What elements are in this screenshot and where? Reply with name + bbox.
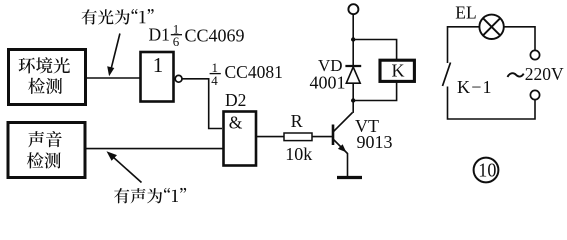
- svg-text:D1: D1: [149, 25, 170, 45]
- terminal: supply: [348, 4, 358, 14]
- svg-text:9013: 9013: [357, 132, 393, 152]
- diode VD (1N4001 flyback): [345, 40, 361, 101]
- svg-text:R: R: [291, 111, 303, 131]
- figure number 10: [474, 158, 499, 183]
- svg-text:10: 10: [478, 160, 496, 182]
- terminal: AC bottom: [530, 90, 539, 99]
- inverter D1: [141, 52, 183, 102]
- relay coil K: [380, 60, 414, 81]
- label: 1/4 CC4081: [210, 60, 283, 88]
- wire: resistor to base: [312, 136, 332, 138]
- label: K-1: [457, 77, 493, 97]
- svg-text:D2: D2: [225, 90, 246, 110]
- label: D1 1/6 CC4069: [149, 21, 245, 48]
- label: ~220V: [508, 64, 565, 84]
- wire: collector to bottom node: [352, 101, 354, 113]
- annotation arrow to sound wire: [107, 151, 142, 182]
- wire: lamp loop top: [448, 27, 480, 63]
- svg-text:220V: 220V: [525, 64, 564, 84]
- label: 10k: [285, 144, 312, 164]
- svg-text:CC4081: CC4081: [225, 62, 283, 82]
- svg-text:K: K: [392, 60, 405, 80]
- ground: [337, 176, 362, 179]
- label: D2: [225, 90, 246, 110]
- node: bottom junction: [351, 98, 355, 102]
- label: EL: [455, 3, 476, 23]
- wire: supply stem: [352, 14, 354, 39]
- transistor VT (NPN 9013): [333, 113, 353, 154]
- resistor R: [284, 133, 312, 141]
- svg-text:1: 1: [153, 53, 164, 77]
- svg-text:10k: 10k: [285, 144, 312, 164]
- svg-text:4001: 4001: [310, 72, 346, 92]
- annotation arrow to light wire: [107, 34, 120, 77]
- wire: D2 output to resistor: [256, 136, 284, 138]
- label: VD 4001: [310, 56, 346, 93]
- lamp EL: [479, 15, 503, 39]
- svg-text:4: 4: [211, 73, 218, 88]
- label: VT 9013: [355, 116, 393, 152]
- switch K-1: [443, 63, 451, 87]
- wire: light detector to D1: [86, 77, 140, 79]
- svg-text:EL: EL: [455, 3, 476, 23]
- node: top junction: [351, 37, 355, 41]
- label: R: [291, 111, 303, 131]
- wire: D1 output to D2 input 1: [182, 79, 222, 129]
- wire: lamp loop bottom: [448, 87, 536, 120]
- wire: bottom rail to relay: [353, 82, 396, 101]
- AND gate D2: [224, 112, 257, 166]
- svg-text:&: &: [229, 112, 243, 132]
- wire: emitter to ground: [347, 153, 349, 177]
- block: sound detector 声音检测: [8, 123, 85, 178]
- block: ambient light detector 环境光检测: [9, 50, 86, 105]
- terminal: AC top: [530, 50, 539, 59]
- svg-text:6: 6: [173, 34, 180, 49]
- svg-text:K−1: K−1: [457, 77, 493, 97]
- svg-text:CC4069: CC4069: [185, 25, 245, 45]
- wire: top rail to relay: [353, 40, 396, 61]
- label: 有光为"1": [82, 9, 154, 25]
- wire: sound detector to D2 input 2: [85, 148, 223, 150]
- label: 有声为"1": [114, 188, 186, 204]
